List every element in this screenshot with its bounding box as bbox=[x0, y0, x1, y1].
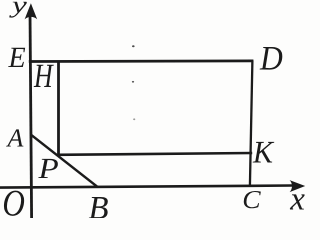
svg-text:H: H bbox=[33, 58, 54, 95]
svg-text:E: E bbox=[8, 42, 26, 74]
rectangle right edge D-C bbox=[250, 61, 253, 187]
speck 3 bbox=[133, 118, 135, 120]
segment H-P vertical bbox=[57, 62, 60, 155]
svg-text:y: y bbox=[9, 0, 27, 18]
svg-text:A: A bbox=[6, 123, 24, 152]
svg-text:P: P bbox=[37, 153, 58, 185]
svg-text:C: C bbox=[242, 185, 261, 214]
svg-text:K: K bbox=[252, 134, 275, 169]
segment P-K horizontal bbox=[58, 153, 252, 155]
speck 1 bbox=[132, 45, 135, 47]
svg-text:D: D bbox=[259, 39, 283, 77]
x-axis arrowhead bbox=[290, 180, 306, 192]
rectangle top edge E-D bbox=[29, 60, 254, 63]
line A-B bbox=[30, 134, 98, 187]
speck 2 bbox=[132, 81, 134, 83]
svg-text:B: B bbox=[89, 190, 109, 218]
x-axis bbox=[0, 186, 292, 188]
y-axis arrowhead bbox=[25, 3, 38, 19]
svg-text:O: O bbox=[2, 183, 24, 218]
svg-text:x: x bbox=[289, 182, 305, 218]
y-axis bbox=[30, 12, 32, 218]
